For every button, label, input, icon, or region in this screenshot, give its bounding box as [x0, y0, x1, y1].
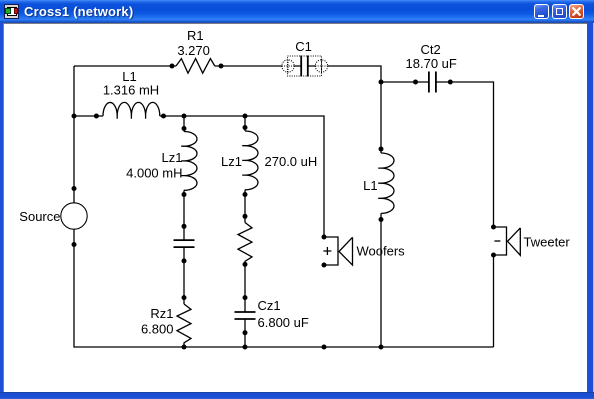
svg-text:3.270: 3.270: [177, 43, 210, 58]
svg-text:Woofers: Woofers: [357, 244, 406, 259]
svg-text:6.800 uF: 6.800 uF: [258, 315, 309, 330]
svg-text:18.70 uF: 18.70 uF: [406, 56, 457, 71]
svg-text:R1: R1: [187, 28, 204, 43]
svg-text:Rz1: Rz1: [150, 306, 173, 321]
svg-text:1.316 mH: 1.316 mH: [103, 83, 159, 98]
svg-text:Source: Source: [19, 209, 60, 224]
svg-text:Lz1: Lz1: [221, 154, 242, 169]
svg-text:Ct2: Ct2: [420, 42, 440, 57]
svg-text:C1: C1: [295, 39, 312, 54]
svg-text:Tweeter: Tweeter: [524, 235, 571, 250]
svg-text:Cz1: Cz1: [258, 298, 281, 313]
svg-text:Lz1: Lz1: [162, 150, 183, 165]
svg-text:270.0 uH: 270.0 uH: [265, 154, 318, 169]
svg-text:L1: L1: [363, 178, 377, 193]
svg-text:4.000 mH: 4.000 mH: [126, 166, 182, 181]
svg-text:6.800: 6.800: [141, 322, 174, 337]
